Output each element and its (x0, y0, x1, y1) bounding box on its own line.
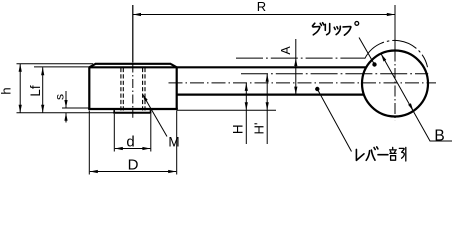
h top extension line (17, 63, 94, 65)
svg-text:R: R (257, 0, 266, 14)
dimension H (245, 83, 247, 144)
lever-part leader (317, 89, 351, 152)
phantom grip axis line (241, 73, 428, 75)
s top extension line (62, 107, 89, 109)
svg-text:H': H' (251, 123, 266, 135)
bu (kanji) right component (399, 148, 404, 158)
small tsu (334, 27, 335, 29)
dimension d (114, 114, 151, 152)
lever arm bottom edge (177, 93, 364, 95)
bottom reference extension line (17, 112, 115, 114)
svg-text:H: H (230, 124, 245, 134)
grip ball (362, 51, 428, 117)
label lever-part (katakana rebaa + kanji bu) (356, 147, 405, 161)
long vowel bar (378, 154, 388, 156)
boss pilot step (114, 110, 150, 113)
svg-text:B: B (434, 128, 444, 145)
boss outline (88, 64, 178, 109)
dimension A (295, 39, 297, 95)
ri (324, 24, 326, 30)
B leader line (381, 54, 452, 141)
label grip (katakana gurippu) (312, 22, 358, 36)
dimension H' (266, 74, 268, 144)
svg-text:d: d (126, 134, 134, 151)
re (356, 149, 364, 160)
dimension Lf (42, 67, 44, 113)
lever arm top edge (177, 66, 367, 68)
dimension s (65, 91, 67, 108)
svg-text:Lf: Lf (28, 85, 43, 97)
svg-text:A: A (279, 46, 293, 55)
svg-text:D: D (128, 156, 139, 173)
bu (kanji) left component (390, 147, 406, 161)
svg-text:h: h (0, 87, 14, 94)
phantom grip arc (alternate position) (365, 40, 428, 67)
boss center line (132, 5, 134, 63)
ball vertical center line (394, 51, 396, 121)
ba (366, 151, 369, 161)
Lf top extension line (34, 66, 89, 68)
lever axis center line (169, 82, 437, 84)
grip leader (359, 38, 375, 65)
dimension R (133, 5, 395, 63)
pu (343, 27, 351, 36)
svg-text:s: s (53, 94, 67, 100)
svg-text:M: M (168, 135, 179, 150)
dimension h (19, 64, 21, 113)
gu (312, 23, 314, 26)
dimension D (89, 111, 176, 175)
upper reference chain line (236, 57, 365, 59)
H/H' bottom reference line (177, 109, 276, 111)
M leader (142, 94, 167, 137)
thread hidden lines (tapped hole) (121, 68, 145, 112)
